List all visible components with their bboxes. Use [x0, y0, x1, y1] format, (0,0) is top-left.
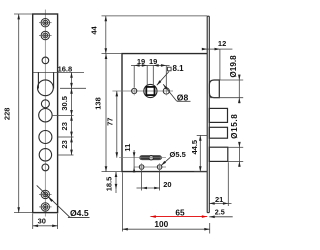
label D5.5 leader	[161, 157, 170, 165]
dimension 21	[209, 162, 231, 206]
svg-text:23: 23	[60, 122, 69, 130]
faceplate edge left line	[206, 16, 208, 212]
svg-text:Ø4.5: Ø4.5	[70, 208, 89, 218]
bottom hole left D5.5	[139, 165, 144, 170]
slot centerline	[119, 157, 166, 159]
dimension 16.8 / 30.5 / 23 / 23 extension lines	[52, 72, 87, 155]
svg-text:Ø5.5: Ø5.5	[170, 150, 186, 159]
dim line 23 b	[71, 137, 73, 155]
side view group	[112, 16, 227, 212]
bottom holes centerline	[134, 166, 166, 168]
label D4.5 leader	[37, 185, 90, 217]
adjusting slot	[140, 156, 162, 160]
label square 8.1	[168, 67, 172, 71]
svg-text:21: 21	[215, 195, 223, 204]
body outline	[122, 54, 207, 172]
dimension 11	[133, 150, 135, 171]
bottom hole right D5.5	[157, 165, 162, 170]
slot screw	[149, 156, 153, 160]
latch bolt	[209, 80, 219, 98]
small hole bottom	[42, 164, 49, 171]
small hole top	[42, 57, 49, 64]
dimension 19 19	[131, 65, 170, 87]
dimension 228	[14, 14, 33, 213]
cylinder cutout sides	[37, 72, 39, 88]
dimension 77	[116, 91, 118, 158]
dim line 30.5	[71, 88, 73, 115]
dimension 12	[203, 49, 232, 80]
dim line 16.8	[71, 72, 73, 88]
svg-text:Ø15.8: Ø15.8	[230, 114, 239, 139]
screw hole S3	[39, 190, 52, 198]
svg-text:18.5: 18.5	[104, 177, 113, 192]
cylinder cutout slot line across plate	[33, 71, 84, 73]
hub hole r6.7	[39, 109, 52, 122]
faceplate outline	[33, 14, 58, 213]
dimension 100	[122, 173, 209, 234]
hole left of hub	[132, 88, 137, 93]
svg-text:11: 11	[123, 144, 132, 152]
hub square 8.1	[146, 87, 154, 95]
hub follower circle	[144, 84, 157, 97]
faceplate caps	[207, 15, 209, 17]
svg-text:12: 12	[218, 39, 226, 48]
deadbolt R3	[209, 147, 228, 161]
hole r4	[41, 100, 49, 108]
svg-text:77: 77	[106, 118, 115, 126]
svg-text:Ø19.8: Ø19.8	[229, 55, 238, 78]
dimension 2.5	[209, 216, 232, 218]
svg-text:23: 23	[60, 140, 69, 148]
cylinder hole circle	[38, 80, 54, 96]
faceplate centerline	[44, 10, 46, 217]
hub centerline	[112, 90, 173, 92]
svg-text:8.1: 8.1	[173, 64, 185, 73]
screw hole S2	[39, 31, 52, 39]
dimension 30	[33, 214, 58, 229]
svg-text:16.8: 16.8	[58, 64, 73, 73]
svg-text:30.5: 30.5	[60, 96, 69, 111]
dim line 23 a	[71, 115, 73, 137]
svg-text:30: 30	[38, 217, 46, 226]
svg-text:100: 100	[154, 219, 168, 229]
screw hole S1	[39, 19, 52, 27]
dimension 18.5	[115, 172, 117, 193]
dimension D19.8	[210, 75, 243, 104]
dimension 20	[137, 170, 160, 190]
deadbolt R2	[209, 127, 227, 138]
leader 8.1	[157, 72, 169, 86]
dimension 44	[102, 16, 208, 54]
deadbolt R1	[209, 108, 227, 122]
svg-text:19: 19	[149, 57, 157, 66]
svg-text:138: 138	[94, 97, 103, 110]
dimension 138	[102, 54, 123, 172]
hole r6.5	[39, 131, 52, 144]
screw hole S4	[39, 203, 52, 211]
front view group	[33, 10, 84, 217]
svg-text:44: 44	[90, 26, 99, 35]
svg-text:44.5: 44.5	[190, 140, 199, 155]
dimension 65 red	[150, 216, 207, 218]
svg-text:20: 20	[163, 180, 171, 189]
svg-text:Ø8: Ø8	[177, 92, 189, 102]
svg-text:2.5: 2.5	[215, 207, 225, 216]
faceplate edge right line	[208, 16, 210, 212]
svg-text:65: 65	[175, 207, 185, 217]
dimension 44.5	[194, 135, 207, 171]
hole right of hub D8	[163, 88, 169, 94]
svg-text:228: 228	[2, 108, 11, 121]
slot filled part	[140, 156, 160, 159]
hole r6.2	[39, 149, 51, 161]
dimension D15.8	[228, 142, 243, 167]
svg-text:19: 19	[137, 57, 145, 66]
label D8 leader	[163, 84, 177, 101]
